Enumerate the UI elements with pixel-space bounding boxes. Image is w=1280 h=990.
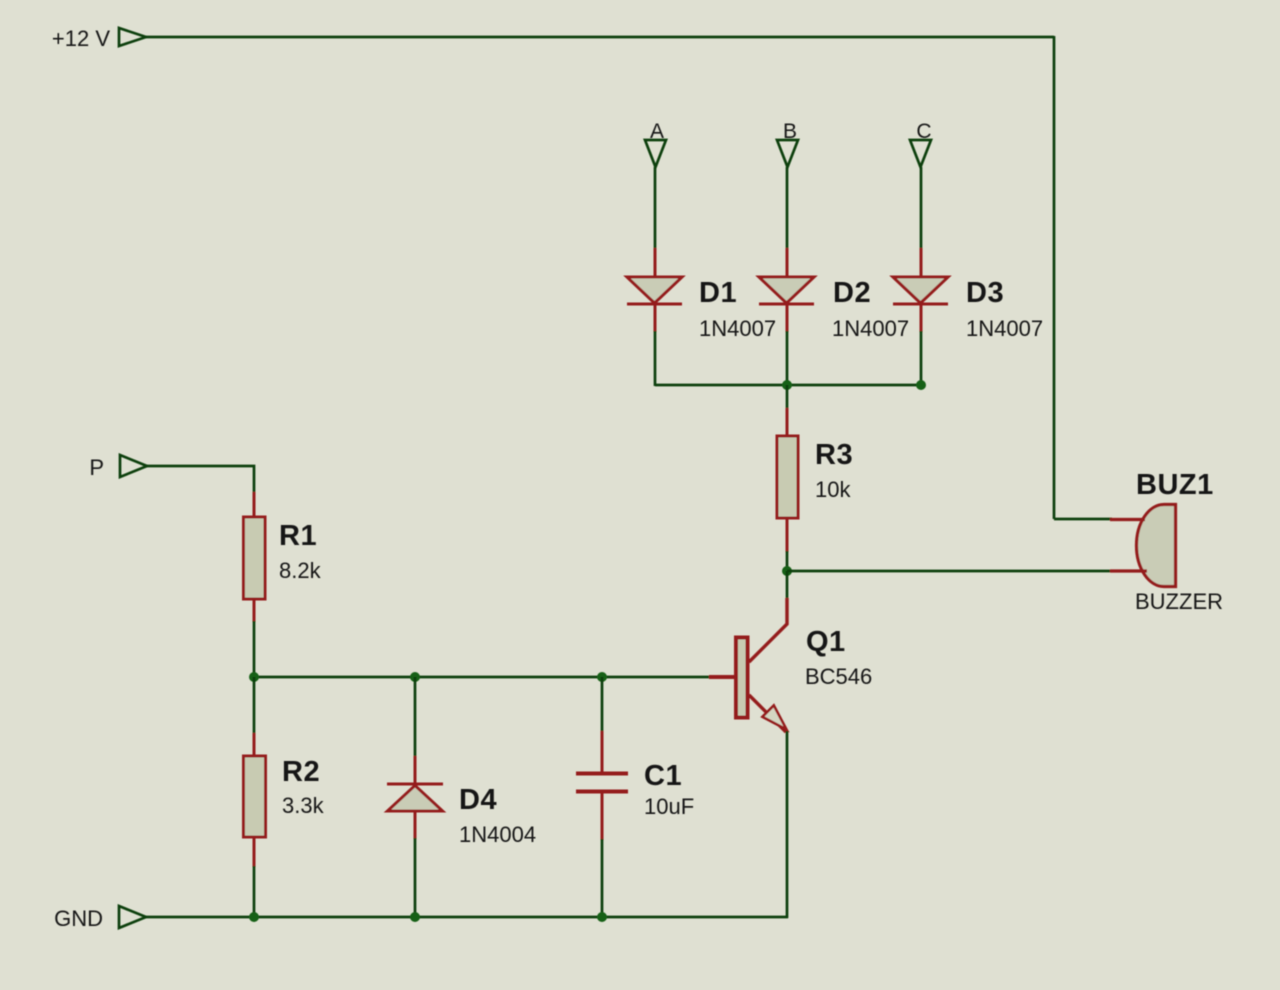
svg-text:D1: D1: [699, 277, 737, 309]
svg-text:R3: R3: [815, 439, 853, 471]
svg-text:C1: C1: [644, 760, 682, 792]
svg-text:A: A: [650, 120, 664, 143]
junction rail/D2/R3: [782, 380, 792, 390]
svg-text:D2: D2: [833, 277, 871, 309]
wire R2 bottom to ground rail: [253, 866, 256, 918]
diode D1: [627, 248, 682, 332]
wire C to D3 anode: [920, 167, 923, 249]
svg-text:D3: D3: [966, 277, 1004, 309]
diode D3: [893, 248, 948, 332]
terminal A (input): [645, 120, 666, 167]
wire B to D2 anode: [786, 167, 789, 249]
junction base rail / D4: [410, 672, 420, 682]
transistor Q1: [736, 598, 787, 732]
svg-text:BUZZER: BUZZER: [1135, 589, 1223, 614]
capacitor C1: [576, 731, 628, 840]
junction base rail / R1 / R2: [249, 672, 259, 682]
resistor R2: [244, 733, 266, 867]
svg-text:D4: D4: [459, 784, 497, 816]
wire Q1 emitter to ground rail: [786, 731, 789, 918]
junction rail/D3: [916, 380, 926, 390]
buzzer BUZ1: [1110, 505, 1176, 587]
wire D3 cathode down: [920, 331, 923, 386]
wire rail to R3: [786, 385, 789, 409]
wire collector node to buzzer bottom pin: [787, 570, 1112, 573]
wire D1 cathode down: [654, 331, 657, 386]
resistor R3: [777, 408, 798, 552]
junction collector node: [782, 566, 792, 576]
wire Q1 base: [709, 675, 734, 679]
junction ground/D4: [410, 912, 420, 922]
terminal P (input): [89, 455, 147, 480]
junction ground/R2: [249, 912, 259, 922]
wire base rail to D4: [414, 677, 417, 757]
svg-text:1N4007: 1N4007: [699, 316, 776, 341]
terminal GND (ground): [54, 906, 146, 931]
resistor R1: [244, 492, 266, 622]
svg-text:+12 V: +12 V: [52, 26, 110, 51]
wire base rail to R2: [253, 677, 256, 734]
svg-text:3.3k: 3.3k: [282, 793, 325, 818]
svg-text:R2: R2: [282, 756, 320, 788]
svg-text:R1: R1: [279, 520, 317, 552]
wire base rail to C1: [601, 677, 604, 732]
svg-text:P: P: [89, 455, 104, 480]
svg-text:C: C: [916, 120, 931, 143]
svg-text:BC546: BC546: [805, 664, 872, 689]
svg-text:GND: GND: [54, 906, 103, 931]
svg-text:1N4007: 1N4007: [832, 316, 909, 341]
svg-text:1N4007: 1N4007: [966, 316, 1043, 341]
wire collector node to Q1: [786, 571, 789, 598]
diode D2: [759, 248, 814, 332]
svg-text:Q1: Q1: [806, 626, 846, 658]
svg-text:1N4004: 1N4004: [459, 822, 536, 847]
terminal +12 V (power input): [52, 26, 146, 51]
wire +12V rail top horizontal: [146, 36, 1054, 39]
wire base rail horizontal: [254, 676, 710, 679]
wire +12V to buzzer top pin: [1054, 518, 1112, 521]
wire D4 anode to ground rail: [414, 838, 417, 918]
diode D4: [387, 756, 443, 839]
terminal B (input): [777, 120, 798, 167]
junction ground/C1: [597, 912, 607, 922]
wire R1 bottom to base rail: [253, 621, 256, 678]
svg-text:BUZ1: BUZ1: [1136, 469, 1214, 501]
terminal C (input): [910, 120, 932, 167]
svg-text:10uF: 10uF: [644, 794, 694, 819]
svg-text:8.2k: 8.2k: [279, 558, 322, 583]
junction base rail / C1: [597, 672, 607, 682]
wire +12V rail right vertical: [1053, 36, 1056, 519]
svg-text:B: B: [783, 120, 797, 143]
wire D2 cathode down: [786, 331, 789, 386]
wire diode common rail: [655, 384, 921, 387]
wire ground rail: [146, 916, 788, 919]
wire C1 bottom to ground rail: [601, 839, 604, 918]
wire P to R1 top: [147, 466, 254, 493]
wire R3 to collector node: [786, 551, 789, 572]
wire A to D1 anode: [654, 167, 657, 249]
svg-text:10k: 10k: [815, 477, 851, 502]
